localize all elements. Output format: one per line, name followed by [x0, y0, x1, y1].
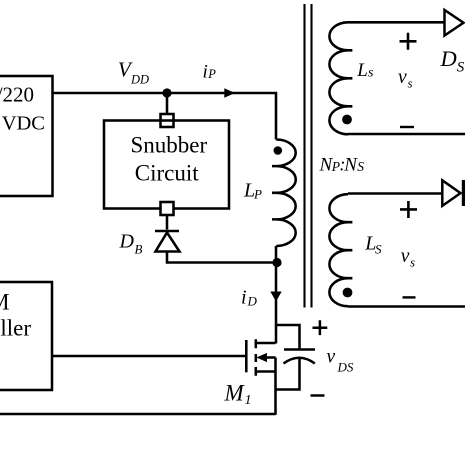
svg-text:Snubber: Snubber [131, 133, 208, 158]
svg-text:i: i [241, 287, 247, 309]
svg-text:i: i [203, 62, 208, 83]
svg-text:S: S [357, 159, 364, 174]
svg-text:s: s [410, 255, 415, 270]
svg-text:L: L [356, 60, 368, 81]
svg-text:s: s [408, 76, 413, 91]
svg-text:PWM: PWM [0, 290, 10, 315]
svg-text:D: D [119, 231, 135, 253]
svg-text:S: S [457, 60, 465, 76]
svg-text:s: s [368, 66, 374, 81]
svg-text:/220: /220 [0, 83, 34, 107]
svg-text:v: v [398, 67, 407, 88]
svg-text:VDC: VDC [2, 113, 45, 135]
svg-text:D: D [440, 46, 457, 71]
svg-text:S: S [375, 241, 382, 256]
svg-text:P: P [207, 67, 216, 81]
svg-text:Circuit: Circuit [135, 161, 199, 186]
svg-text:P: P [253, 187, 262, 202]
svg-text:DS: DS [337, 360, 354, 375]
svg-text:DD: DD [130, 73, 149, 87]
svg-text:v: v [401, 246, 410, 267]
svg-text:v: v [327, 347, 336, 368]
svg-text:N: N [343, 155, 358, 176]
svg-text:D: D [247, 293, 258, 308]
svg-text:Controller: Controller [0, 315, 31, 340]
svg-text:B: B [135, 242, 143, 257]
svg-text:M: M [224, 381, 246, 406]
svg-text:1: 1 [245, 393, 252, 408]
